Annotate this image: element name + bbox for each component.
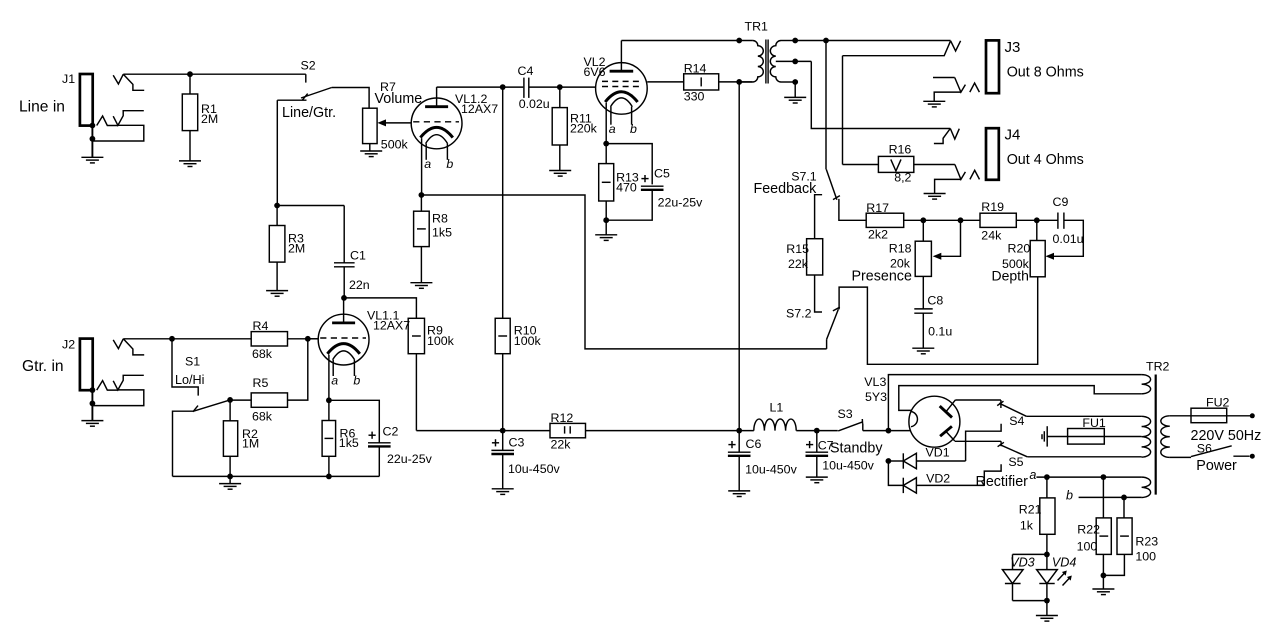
resistor R16	[878, 143, 913, 185]
wire node to C1	[277, 205, 344, 207]
fuse FU1	[1047, 416, 1106, 444]
svg-text:J2: J2	[62, 338, 75, 352]
ground under J1	[81, 157, 103, 163]
led VD4 arrows	[1058, 571, 1072, 586]
wire FU2 to terminal	[1227, 415, 1250, 417]
resistor R23	[1103, 497, 1158, 575]
svg-text:b: b	[353, 373, 360, 387]
wire S2 pivot down to R3 node	[276, 100, 278, 205]
wire J1 stem to ground	[91, 126, 93, 158]
svg-text:6V6: 6V6	[584, 65, 606, 79]
wire R7 wiper arrow	[377, 119, 411, 126]
svg-text:VD1: VD1	[926, 445, 950, 459]
wire VL3 heater bottom feed	[888, 375, 1141, 431]
svg-text:10u-450v: 10u-450v	[745, 462, 797, 476]
resistor R8	[414, 195, 452, 283]
triode VL1.1	[318, 309, 410, 388]
svg-text:C5: C5	[654, 167, 670, 181]
svg-text:10u-450v: 10u-450v	[508, 462, 560, 476]
jack J3	[986, 39, 1084, 93]
svg-text:Out 8 Ohms: Out 8 Ohms	[1007, 65, 1084, 81]
potentiometer R7	[363, 80, 423, 152]
wire VD1 to VD2	[888, 461, 903, 485]
jack J1 ring contact	[92, 111, 143, 141]
resistor R13	[599, 144, 639, 221]
svg-text:R8: R8	[432, 212, 448, 226]
svg-text:100: 100	[1135, 550, 1156, 564]
svg-text:C2: C2	[383, 425, 399, 439]
svg-text:R5: R5	[253, 376, 269, 390]
svg-text:a: a	[609, 122, 616, 136]
resistor R19	[980, 200, 1016, 242]
resistor R10	[495, 318, 541, 353]
svg-text:S2: S2	[301, 59, 316, 73]
svg-text:R18: R18	[889, 242, 912, 256]
node TR1 secondary top	[792, 38, 798, 44]
svg-text:10u-450v: 10u-450v	[822, 458, 874, 472]
switch S7.1	[754, 169, 840, 199]
wire R16 to J4 ring	[914, 164, 955, 166]
wire R14 to TR1	[719, 81, 753, 83]
svg-text:Presence: Presence	[852, 269, 912, 285]
wire J2 tip to R4	[123, 338, 251, 340]
resistor R5	[230, 376, 287, 423]
svg-text:22u-25v: 22u-25v	[387, 452, 433, 466]
svg-text:a: a	[331, 373, 338, 387]
svg-text:100: 100	[1077, 540, 1098, 554]
svg-text:Line/Gtr.: Line/Gtr.	[282, 105, 336, 121]
wire VL1.1 grid stub	[308, 338, 319, 340]
svg-text:S4: S4	[1009, 414, 1024, 428]
node TR1 primary bottom	[736, 79, 742, 85]
wire VL2 cathode	[605, 103, 607, 144]
label 220V 50Hz	[1191, 428, 1262, 444]
capacitor C2	[329, 400, 433, 476]
svg-text:330: 330	[684, 90, 705, 104]
wire R10 bottom	[502, 354, 504, 431]
svg-text:R20: R20	[1008, 241, 1031, 255]
ground under J4	[924, 194, 946, 200]
node C6	[736, 428, 742, 434]
svg-text:R17: R17	[866, 201, 889, 215]
jack J2 ring contact	[92, 375, 143, 405]
ground under bottom rail	[219, 476, 241, 489]
wire 220V top to FU2	[1170, 415, 1191, 417]
resistor R15	[786, 239, 822, 275]
wire TR1 mid tap to J4	[811, 61, 950, 128]
node TR1 secondary bottom	[792, 79, 798, 85]
svg-text:2M: 2M	[288, 242, 305, 256]
svg-text:S3: S3	[838, 407, 853, 421]
svg-text:100k: 100k	[427, 334, 455, 348]
wire R18 wiper arrow	[933, 220, 961, 259]
wire S5 lower throw to VD2	[984, 464, 1001, 485]
diode VD3	[1002, 555, 1034, 600]
chassis ground at FU1	[1042, 426, 1047, 446]
svg-text:C8: C8	[927, 294, 943, 308]
wire S7.1 to R17	[839, 199, 866, 220]
jack J4 ring contact	[935, 165, 980, 194]
node C3	[500, 428, 506, 434]
wire b-row	[1066, 488, 1142, 502]
transformer TR2 5V winding	[1142, 375, 1151, 394]
ground under J2	[81, 421, 103, 427]
wire FU1 to TR2 HV center tap	[1104, 436, 1141, 438]
resistor R9	[408, 318, 454, 353]
node mains terminal bottom	[1250, 454, 1255, 459]
transformer TR1 secondary winding	[770, 41, 811, 83]
wire VL1.1 anode	[343, 298, 345, 323]
jack J3 ring contact	[933, 78, 979, 102]
svg-text:100k: 100k	[514, 334, 542, 348]
wire J1 tip to S2	[123, 73, 305, 75]
svg-text:R21: R21	[1019, 503, 1042, 517]
wire C1 node to R9	[344, 298, 416, 318]
ground under C8	[912, 348, 934, 354]
node R2 bottom	[227, 474, 233, 480]
capacitor C7	[806, 431, 875, 478]
svg-text:a: a	[1029, 468, 1036, 482]
node R17/R18	[920, 217, 926, 223]
wire VL3 heater top to TR2	[899, 386, 1142, 411]
diode VD1	[888, 445, 965, 468]
capacitor C5	[606, 144, 703, 221]
node R19/R20	[1034, 217, 1040, 223]
resistor R2	[223, 400, 259, 477]
svg-text:R22: R22	[1077, 523, 1100, 537]
wire S4 lower throw to VD1	[966, 424, 1002, 461]
wire S2 to R7	[332, 88, 369, 109]
wire VD3 to VD4 bottom	[1013, 600, 1047, 602]
potentiometer R18	[852, 220, 932, 284]
jack J3 tip contact	[843, 41, 961, 56]
svg-text:R15: R15	[786, 242, 809, 256]
wire to VD3	[1013, 554, 1047, 569]
svg-text:1k5: 1k5	[432, 226, 452, 240]
switch S7.2	[786, 306, 840, 349]
ground under C3	[492, 489, 514, 495]
ground under R7	[360, 151, 382, 157]
node VL2 cathode	[603, 141, 609, 147]
wire VL1.2 cathode	[421, 138, 423, 195]
svg-text:R12: R12	[551, 411, 574, 425]
wire S5 to TR2 HV bottom	[1027, 456, 1141, 458]
svg-text:22u-25v: 22u-25v	[658, 196, 704, 210]
ground under R11	[549, 171, 571, 177]
resistor R1	[182, 74, 218, 161]
svg-text:VL3: VL3	[864, 375, 886, 389]
node TR1 secondary mid	[792, 59, 798, 65]
svg-text:C4: C4	[518, 64, 534, 78]
svg-text:FU2: FU2	[1206, 395, 1230, 409]
transformer TR2 core	[1155, 375, 1157, 495]
svg-text:12AX7: 12AX7	[373, 318, 410, 332]
switch S1	[172, 339, 230, 477]
svg-text:VD4: VD4	[1052, 555, 1077, 569]
node VL1.1 cathode	[326, 397, 332, 403]
capacitor C8	[914, 276, 952, 348]
node VD1	[886, 458, 892, 464]
node R22/R23 bottom	[1101, 573, 1107, 579]
node R13 bottom	[603, 217, 609, 223]
transformer TR2 label	[1146, 360, 1170, 374]
svg-text:Feedback: Feedback	[754, 181, 818, 197]
jack J4	[986, 127, 1084, 180]
svg-text:22k: 22k	[551, 437, 572, 451]
svg-text:b: b	[630, 122, 637, 136]
wire VL1.2 anode	[437, 87, 524, 107]
ground under R3	[266, 291, 288, 297]
svg-text:R23: R23	[1135, 535, 1158, 549]
wire J3 shorting to R16	[843, 56, 879, 165]
svg-text:J3: J3	[1005, 39, 1021, 56]
node J1 sleeve	[90, 123, 96, 142]
wire main B+ rail	[416, 430, 910, 432]
svg-text:Line in: Line in	[19, 99, 65, 116]
transformer TR2 HV winding	[1142, 416, 1151, 457]
switch S4	[997, 400, 1026, 428]
svg-text:Standby: Standby	[830, 441, 883, 457]
wire bottom rail	[173, 475, 380, 477]
switch S3	[830, 407, 883, 457]
svg-text:500k: 500k	[381, 138, 409, 152]
svg-text:5Y3: 5Y3	[865, 390, 887, 404]
node J2 tip / S1	[169, 336, 175, 342]
resistor R4	[251, 319, 287, 361]
node C7	[814, 428, 820, 434]
wire TR1 primary bottom row	[739, 81, 752, 83]
wire J2 stem to ground	[91, 390, 93, 420]
ground under TR1 secondary	[784, 82, 806, 103]
resistor R11	[552, 87, 597, 170]
pentode VL2	[584, 55, 648, 136]
svg-text:R14: R14	[684, 61, 707, 75]
node VL1.1 grid	[305, 336, 311, 342]
jack J2 tip contact	[113, 339, 144, 355]
svg-text:VD2: VD2	[926, 471, 950, 485]
node mains terminal top	[1250, 413, 1255, 418]
node R6 bottom	[326, 474, 332, 480]
node C1/R9/VL1.1 anode	[341, 295, 347, 301]
capacitor C6	[728, 431, 798, 491]
wire VL1.1 cathode	[328, 355, 330, 401]
svg-text:J4: J4	[1005, 127, 1021, 144]
resistor R14	[684, 61, 719, 103]
svg-text:C6: C6	[746, 437, 762, 451]
wire VL3 lower plate to S5	[955, 440, 1001, 442]
ground under R22	[1092, 575, 1114, 594]
jack J1 tip contact	[113, 74, 144, 90]
svg-text:22n: 22n	[349, 278, 370, 292]
transformer TR1 core	[766, 40, 768, 84]
inductor L1	[754, 400, 796, 430]
jack J2	[22, 338, 93, 391]
diode VD2	[903, 471, 984, 493]
node R1 top	[187, 71, 193, 77]
svg-text:68k: 68k	[252, 347, 273, 361]
switch S5	[998, 441, 1028, 469]
svg-text:2k2: 2k2	[868, 228, 888, 242]
svg-text:b: b	[1066, 488, 1073, 502]
svg-text:220k: 220k	[570, 121, 598, 135]
wire VL2 screen to R14	[647, 81, 684, 83]
wire R9 bottom to rail	[415, 354, 417, 431]
led VD4	[1037, 554, 1077, 600]
node VD4 bottom	[1044, 598, 1050, 604]
wire VL2 anode to top rail	[621, 41, 752, 72]
node S1/R2/R5	[227, 397, 233, 403]
node J2 sleeve	[90, 387, 96, 406]
fuse FU2	[1191, 395, 1230, 422]
node R8 top	[419, 192, 425, 198]
potentiometer R20	[992, 220, 1046, 283]
resistor R22	[1077, 477, 1112, 575]
transformer TR2 6.3V winding	[1142, 477, 1151, 497]
svg-text:Volume: Volume	[375, 91, 423, 107]
ground under J3	[923, 101, 945, 107]
svg-text:b: b	[446, 157, 453, 171]
label Rectifier	[976, 468, 1037, 490]
svg-text:FU1: FU1	[1082, 416, 1106, 430]
svg-text:Gtr. in: Gtr. in	[22, 358, 64, 375]
node VL3 heater/B+ takeoff	[886, 428, 892, 434]
ground under C7	[806, 477, 828, 483]
svg-text:8,2: 8,2	[894, 171, 911, 185]
jack J4 tip contact	[934, 129, 959, 144]
svg-text:R4: R4	[253, 319, 269, 333]
svg-text:J1: J1	[62, 72, 75, 86]
svg-text:0.1u: 0.1u	[928, 325, 952, 339]
capacitor C9	[1053, 195, 1084, 246]
wire R17 row	[904, 219, 980, 221]
svg-text:Out 4 Ohms: Out 4 Ohms	[1007, 152, 1084, 168]
svg-text:TR2: TR2	[1146, 360, 1170, 374]
node TR1 primary top	[736, 38, 742, 44]
switch S6 Power	[1170, 441, 1250, 474]
node S7.1 feed	[823, 38, 829, 44]
svg-text:a: a	[424, 157, 431, 171]
svg-text:Depth: Depth	[992, 268, 1029, 284]
ground under R13	[595, 220, 617, 240]
ground under R8	[410, 283, 432, 289]
triode VL1.2	[411, 92, 498, 171]
svg-text:68k: 68k	[252, 409, 273, 423]
wire R4 to grid node	[288, 338, 319, 340]
wire C9 to R20 wiper	[1045, 220, 1083, 259]
svg-text:Power: Power	[1196, 458, 1237, 474]
svg-text:470: 470	[616, 181, 637, 195]
svg-text:24k: 24k	[981, 228, 1002, 242]
wire B+ drop to C6	[738, 82, 740, 431]
svg-text:1k: 1k	[1020, 519, 1034, 533]
svg-text:2M: 2M	[201, 112, 218, 126]
svg-text:S5: S5	[1008, 455, 1023, 469]
resistor R3	[269, 206, 305, 291]
svg-text:0.02u: 0.02u	[519, 97, 550, 111]
svg-text:S7.2: S7.2	[786, 306, 812, 320]
wire S4 to TR2 HV top	[1026, 415, 1141, 417]
node R23 top	[1121, 495, 1127, 501]
svg-text:S1: S1	[185, 355, 200, 369]
svg-text:C9: C9	[1053, 195, 1069, 209]
wire feedback return R8 to S7.2	[421, 195, 826, 349]
capacitor C1	[334, 206, 370, 298]
resistor R21	[1019, 477, 1055, 554]
transformer TR1 label	[745, 20, 769, 34]
wire R15 bottom bracket	[815, 275, 822, 312]
switch S2	[277, 59, 336, 122]
svg-text:C1: C1	[350, 249, 366, 263]
node R11 top	[557, 84, 563, 90]
wire a-row	[1036, 476, 1141, 478]
rectifier tube VL3	[864, 375, 960, 447]
wire S7.2 throw to R20 bottom	[839, 277, 1038, 365]
jack J1	[19, 72, 93, 126]
wire top rail to J3	[795, 40, 950, 42]
wire R7 bottom	[369, 144, 371, 151]
wire S7.1 throw to R15	[815, 195, 823, 239]
svg-text:L1: L1	[770, 400, 784, 414]
node VL1.2 anode / R10	[500, 84, 506, 90]
svg-text:VD3: VD3	[1010, 555, 1034, 569]
wire VL3 upper plate to S4	[956, 399, 1001, 401]
resistor R17	[866, 201, 904, 242]
svg-text:1M: 1M	[242, 436, 259, 450]
svg-text:12AX7: 12AX7	[461, 102, 498, 116]
node VD3/VD4 top	[1044, 552, 1050, 558]
node R21 top	[1044, 474, 1050, 480]
transformer TR1 primary winding	[753, 41, 764, 83]
svg-text:C3: C3	[509, 435, 525, 449]
wire R19 to C9	[1016, 219, 1058, 221]
resistor R12	[550, 411, 586, 452]
capacitor C3	[491, 431, 560, 489]
svg-text:R19: R19	[981, 200, 1004, 214]
wire R10 top	[502, 87, 504, 318]
resistor R6	[322, 400, 359, 476]
node R18 wiper feed	[958, 217, 964, 223]
svg-text:Lo/Hi: Lo/Hi	[175, 373, 204, 387]
ground under C6	[728, 491, 750, 497]
svg-text:TR1: TR1	[745, 20, 769, 34]
ground under VD4	[1036, 601, 1058, 622]
svg-text:Rectifier: Rectifier	[976, 474, 1029, 490]
ground under R1	[179, 161, 201, 167]
wire S7.1 feed down	[825, 41, 827, 170]
svg-text:R16: R16	[889, 143, 912, 157]
transformer TR2 220V winding	[1161, 416, 1170, 458]
svg-text:0.01u: 0.01u	[1053, 232, 1084, 246]
wire R5 to grid node	[288, 339, 308, 400]
node R22 top	[1101, 474, 1107, 480]
svg-text:1k5: 1k5	[339, 436, 359, 450]
capacitor C4	[518, 64, 596, 111]
node R3/C1	[274, 203, 280, 209]
svg-text:22k: 22k	[788, 257, 809, 271]
